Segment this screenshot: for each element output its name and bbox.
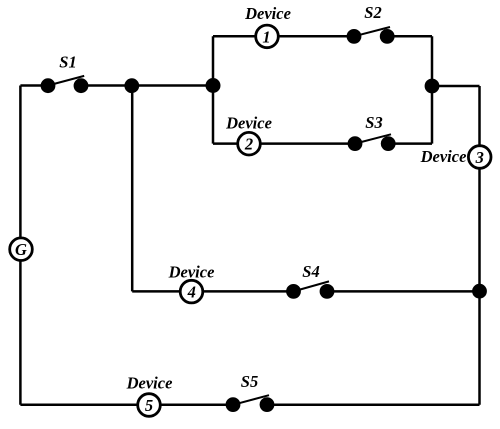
wire: vertical drop from junction C to Device 4 branch	[131, 86, 134, 292]
wire: S3 right contact to corner	[388, 142, 432, 145]
wire: vertical at junction B joining S2 and S3 branches	[431, 36, 434, 143]
wire: bottom horizontal from left bus to S5 left contact	[20, 404, 233, 407]
wire: Device 4 branch to S4 left contact	[132, 290, 293, 293]
junction C dot	[124, 78, 139, 93]
switch S3 lever	[355, 134, 391, 143]
svg-text:5: 5	[145, 396, 153, 415]
svg-text:S5: S5	[241, 372, 258, 391]
wire: S1 right contact to junction A	[81, 84, 213, 87]
wire: S4 right contact to junction D on right bus	[327, 290, 480, 293]
wire: vertical at junction A joining Device 1 and Device 2 branches	[212, 36, 215, 143]
wire: S2 right contact to corner	[387, 35, 432, 38]
switch S4 lever	[294, 281, 330, 291]
wire: Device 2 branch from junction A riser to S3 left contact	[213, 142, 355, 145]
svg-text:S3: S3	[365, 113, 382, 132]
svg-text:Device: Device	[244, 4, 291, 23]
svg-text:Device: Device	[420, 147, 467, 166]
svg-text:2: 2	[244, 135, 253, 154]
wire: S5 right contact to right bus	[267, 404, 480, 407]
device 1 circle	[256, 25, 279, 48]
wire: horizontal from junction B to right bus	[432, 85, 480, 88]
switch S2 right contact	[380, 29, 395, 44]
wire: right vertical bus through Device 3	[478, 86, 481, 405]
svg-text:S2: S2	[364, 3, 381, 22]
switch S1 left contact	[41, 78, 56, 93]
device 5 circle	[138, 394, 161, 417]
svg-text:G: G	[15, 240, 27, 259]
junction D dot	[472, 284, 487, 299]
generator G circle	[10, 238, 33, 261]
switch S1 right contact	[74, 78, 89, 93]
svg-text:S4: S4	[302, 262, 319, 281]
device 4 circle	[180, 280, 203, 303]
wire: Device 1 branch from junction A riser to S2 left contact	[213, 35, 354, 38]
switch S4 left contact	[286, 284, 301, 299]
switch S3 left contact	[348, 136, 363, 151]
svg-text:4: 4	[187, 283, 196, 302]
device 2 circle	[238, 132, 261, 155]
svg-text:1: 1	[262, 27, 270, 46]
switch S5 lever	[233, 395, 269, 405]
switch S4 right contact	[320, 284, 335, 299]
switch S1 lever	[48, 76, 84, 86]
junction B dot	[425, 79, 440, 94]
junction A dot	[206, 78, 221, 93]
switch S2 lever	[354, 27, 390, 36]
svg-text:Device: Device	[225, 114, 272, 133]
wire: top-left horizontal from left corner to S1 left contact	[20, 84, 48, 87]
svg-text:Device: Device	[168, 263, 215, 282]
svg-text:Device: Device	[126, 374, 173, 393]
switch S3 right contact	[381, 136, 396, 151]
switch S2 left contact	[347, 29, 362, 44]
switch S5 left contact	[226, 397, 241, 412]
device 3 circle	[468, 146, 491, 169]
svg-text:S1: S1	[59, 53, 76, 72]
switch S5 right contact	[260, 397, 275, 412]
svg-text:3: 3	[475, 148, 484, 167]
wire: left vertical bus through generator	[19, 86, 22, 405]
